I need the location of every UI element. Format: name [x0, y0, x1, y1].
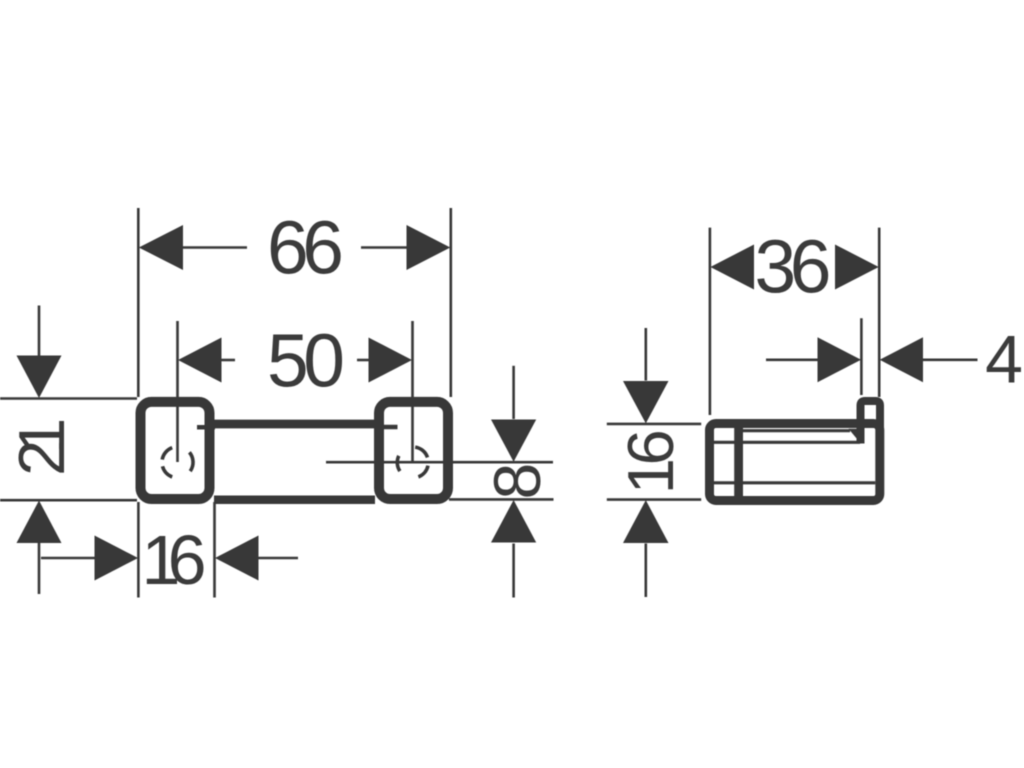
svg-text:66: 66 — [267, 206, 344, 290]
svg-text:50: 50 — [267, 319, 345, 403]
svg-text:4: 4 — [985, 322, 1023, 398]
svg-text:21: 21 — [5, 418, 78, 476]
svg-text:36: 36 — [755, 225, 832, 309]
svg-text:16: 16 — [614, 429, 687, 494]
svg-text:8: 8 — [480, 463, 554, 500]
svg-text:16: 16 — [142, 521, 207, 599]
